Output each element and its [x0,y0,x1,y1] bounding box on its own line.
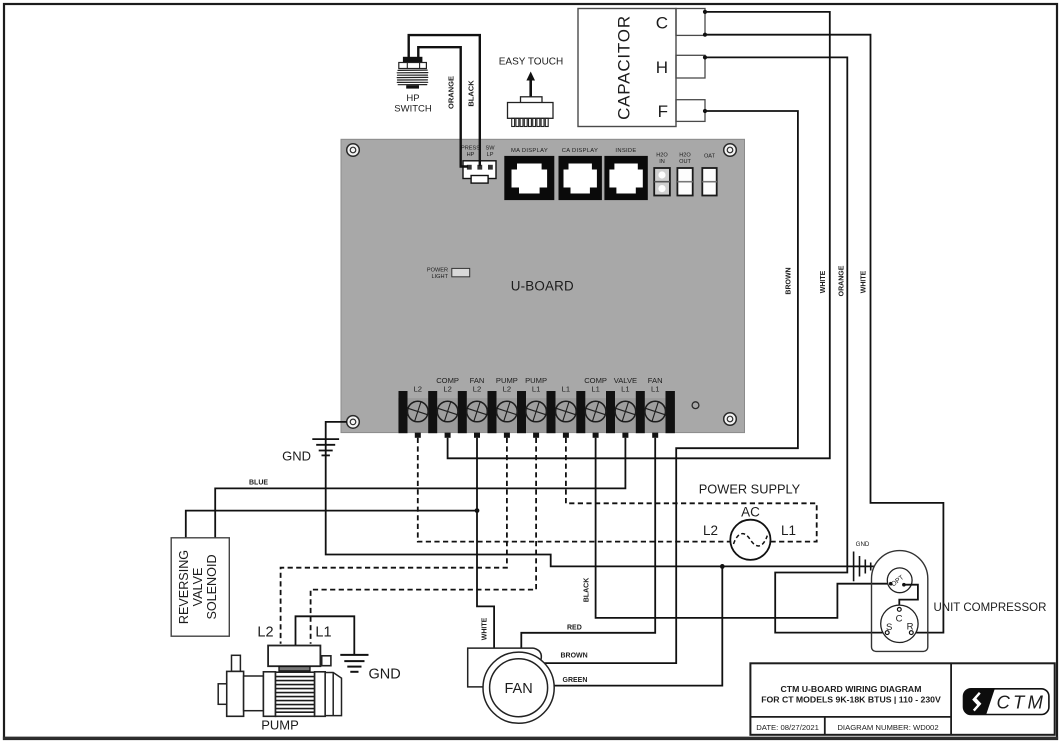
wire dashed: L1 terminal to AC L1 [566,438,817,542]
node junction green/ground [720,564,725,569]
capacitor terminal F [676,100,705,122]
ground symbol GND main [312,439,339,455]
HP switch S1 [394,57,432,115]
svg-text:BLACK: BLACK [467,80,476,107]
svg-text:L1: L1 [562,385,570,394]
svg-text:WHITE: WHITE [820,270,827,293]
svg-text:INSIDE: INSIDE [615,148,636,154]
svg-text:L1: L1 [315,625,331,641]
board corner screw top-right [724,144,737,157]
jack INSIDE [604,148,647,200]
wire: board ground to compressor case [326,422,875,567]
svg-text:L1: L1 [591,385,599,394]
wire white: capacitor C to COMP L2 [448,12,830,458]
svg-text:BLUE: BLUE [249,480,268,487]
svg-text:BROWN: BROWN [561,653,588,660]
svg-text:POWER: POWER [427,268,448,274]
wire: solenoid left lead to FAN L2 node [186,511,477,538]
svg-text:L2: L2 [257,625,273,641]
svg-text:IN: IN [659,159,665,165]
connector H2O IN [654,153,670,196]
svg-text:SWITCH: SWITCH [394,104,432,115]
connector J1 PRESS HP / SW LP [461,146,496,184]
EASY TOUCH connector [499,57,563,127]
wire black from HP switch to board connector [409,35,480,166]
wire black: COMP L1 to compressor OPT [596,438,889,618]
board corner screw top-left [347,144,360,157]
svg-text:U-BOARD: U-BOARD [511,279,574,294]
wire dashed: L2 terminal to AC L2 [418,438,731,542]
svg-text:VALVE: VALVE [191,568,205,607]
svg-text:GND: GND [856,541,870,548]
svg-text:C: C [896,614,903,625]
board corner screw bottom-right [724,413,737,426]
capacitor C1 [578,9,676,127]
AC source PS1 [703,505,796,560]
svg-text:L1: L1 [621,385,629,394]
svg-text:OUT: OUT [679,159,691,165]
compressor terminals S C R [881,605,918,642]
board hole [692,402,699,409]
jack MA DISPLAY [504,148,554,200]
connector H2O OUT [677,153,692,196]
svg-text:PUMP: PUMP [261,718,299,733]
capacitor terminal H [676,55,705,78]
node junction FAN L2 / solenoid [475,508,480,513]
terminal strip TB1 [398,376,675,438]
svg-text:POWER SUPPLY: POWER SUPPLY [699,482,801,497]
svg-text:DIAGRAM NUMBER: WD002: DIAGRAM NUMBER: WD002 [837,723,938,732]
relay OPT [887,568,912,593]
wire: OPT to compressor C [899,585,918,608]
svg-text:H2O: H2O [679,153,691,159]
svg-text:DATE: 08/27/2021: DATE: 08/27/2021 [756,723,819,732]
svg-text:FAN: FAN [504,681,532,697]
svg-text:ORANGE: ORANGE [447,76,456,109]
board corner screw / ground lug bottom-left [347,416,360,429]
svg-text:PRESS: PRESS [461,146,480,152]
svg-text:C: C [656,14,668,33]
wire dashed: PUMP L1 terminal to pump L1 [311,438,536,644]
svg-text:HP: HP [467,152,475,158]
svg-text:OAT: OAT [704,154,716,160]
svg-text:UNIT COMPRESSOR: UNIT COMPRESSOR [934,602,1047,614]
svg-text:GND: GND [282,449,311,464]
wire brown: capacitor F to fan [545,111,798,663]
ground comb compressor case [854,552,871,582]
svg-text:F: F [658,102,668,121]
node H junction [703,55,707,59]
svg-text:MA DISPLAY: MA DISPLAY [511,148,548,154]
svg-text:REVERSING: REVERSING [177,550,191,624]
svg-text:AC: AC [741,505,760,520]
svg-text:EASY TOUCH: EASY TOUCH [499,57,563,68]
svg-text:L1: L1 [781,523,796,538]
LED power light [427,268,470,280]
svg-text:GREEN: GREEN [563,677,588,684]
wire white: FAN L2 to fan via solenoid node [477,438,494,648]
svg-text:CAPACITOR: CAPACITOR [615,15,634,120]
svg-text:L2: L2 [473,385,481,394]
svg-text:CTM U-BOARD WIRING DIAGRAM: CTM U-BOARD WIRING DIAGRAM [781,684,922,694]
connector OAT [702,154,716,196]
svg-text:H2O: H2O [656,153,668,159]
svg-text:L2: L2 [703,523,718,538]
svg-text:L1: L1 [532,385,540,394]
wire orange: capacitor H to compressor S [705,57,886,632]
svg-text:SOLENOID: SOLENOID [205,554,219,619]
U-BOARD board U1 [341,139,745,432]
wire green: ground junction to fan [554,566,722,685]
svg-text:CA DISPLAY: CA DISPLAY [562,148,598,154]
node C lower junction [703,33,707,37]
svg-text:CTM: CTM [997,692,1047,713]
svg-text:BROWN: BROWN [786,267,793,294]
svg-text:L2: L2 [414,385,422,394]
svg-text:L2: L2 [443,385,451,394]
fan M2 [468,648,554,723]
svg-text:WHITE: WHITE [861,270,868,293]
svg-text:GND: GND [369,667,401,683]
svg-text:ORANGE: ORANGE [839,265,846,296]
capacitor terminal C [676,9,705,36]
svg-text:FOR CT MODELS 9K-18K BTUS | 11: FOR CT MODELS 9K-18K BTUS | 110 - 230V [761,694,941,704]
svg-text:LIGHT: LIGHT [432,274,449,280]
svg-text:HP: HP [406,93,419,104]
svg-text:LP: LP [487,152,494,158]
wire white: capacitor C to compressor R [705,35,943,633]
svg-text:WHITE: WHITE [482,617,489,640]
logo CTM [964,689,1049,715]
node F junction [703,109,707,113]
wire dashed: PUMP L2 terminal to pump L2 [281,438,507,644]
svg-text:H: H [656,58,668,77]
reversing valve solenoid RV1 [171,538,229,636]
node C upper junction [703,10,707,14]
svg-text:RED: RED [567,625,582,632]
wire orange from HP switch to board connector [418,47,468,166]
wire: pump to ground [296,616,355,654]
title block [750,663,1054,735]
ground symbol GND pump [340,655,368,672]
wire blue: VALVE L1 to solenoid [215,438,625,538]
svg-text:SW: SW [485,146,495,152]
jack CA DISPLAY [559,148,602,200]
svg-text:BLACK: BLACK [584,578,591,603]
wire red: FAN L1 to fan [521,438,655,648]
pump M1 [218,625,341,733]
unit compressor M3 [872,551,1047,652]
svg-text:L2: L2 [503,385,511,394]
svg-text:L1: L1 [651,385,659,394]
